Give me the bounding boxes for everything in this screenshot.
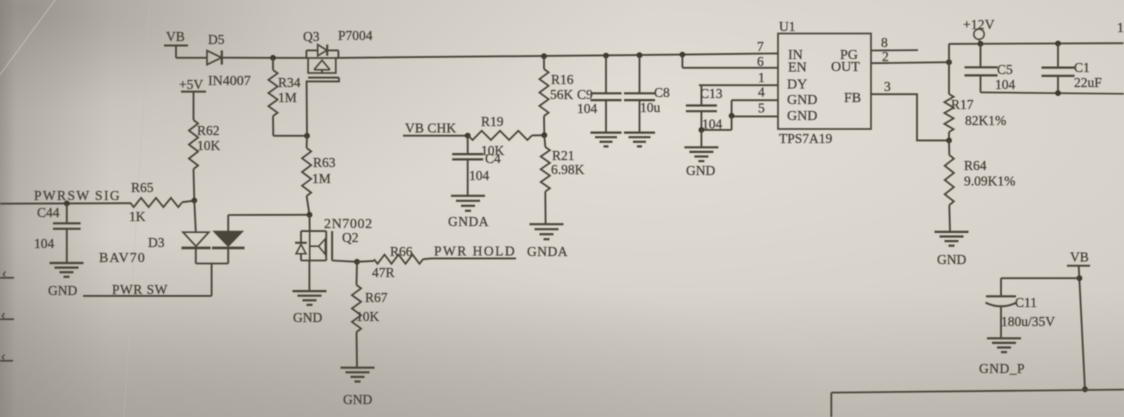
wire R34 to node E — [273, 135, 307, 137]
node OUT junction — [946, 59, 952, 65]
net label PWRSW_SIG — [0, 188, 130, 204]
svg-text:5: 5 — [758, 101, 765, 116]
svg-text:1M: 1M — [312, 171, 331, 186]
svg-text:VB CHK: VB CHK — [405, 121, 456, 136]
power +5V — [179, 77, 206, 92]
node C9 tap — [603, 53, 609, 59]
net label VB_CHK — [403, 121, 468, 136]
transistor Q2 channel box — [301, 217, 373, 261]
svg-text:BAV70: BAV70 — [99, 251, 146, 266]
svg-text:R34: R34 — [278, 75, 301, 90]
svg-text:GNDA: GNDA — [527, 244, 568, 259]
transistor Q2 gate bar — [331, 231, 333, 260]
svg-text:D5: D5 — [208, 32, 225, 47]
transistor Q3 P7004 body diode bracket — [306, 45, 338, 58]
svg-text:GND_P: GND_P — [979, 361, 1025, 376]
ground under C9 — [591, 133, 622, 147]
wire EN drop — [682, 55, 778, 68]
node C5 tap — [978, 41, 984, 47]
resistor R63 1M — [302, 136, 336, 215]
svg-text:GND: GND — [48, 283, 77, 298]
resistor R65 1K — [129, 180, 182, 224]
net label PWR_HOLD — [432, 244, 517, 259]
svg-text:C8: C8 — [654, 85, 670, 100]
svg-text:GND: GND — [686, 163, 715, 178]
svg-text:6.98K: 6.98K — [551, 162, 585, 177]
svg-text:6: 6 — [757, 54, 764, 69]
svg-text:C11: C11 — [1015, 295, 1037, 310]
wire Q2 source down — [308, 261, 310, 291]
node E junction — [304, 133, 310, 139]
svg-text:R16: R16 — [551, 72, 574, 87]
svg-text:R65: R65 — [131, 180, 154, 195]
svg-text:FB: FB — [844, 91, 861, 106]
pin 7 IN — [757, 39, 764, 54]
svg-text:104: 104 — [577, 101, 598, 116]
power +12V — [963, 17, 995, 44]
wire C5-C1 bottom — [981, 92, 1124, 93]
resistor R19 10K — [468, 114, 544, 158]
pin 2 OUT wire — [871, 49, 949, 64]
ground under C44 — [48, 263, 84, 298]
svg-text:10K: 10K — [356, 309, 380, 324]
wire R62 to node B — [193, 169, 196, 201]
svg-text:R67: R67 — [365, 290, 388, 305]
svg-text:GND: GND — [293, 310, 322, 325]
pin 8 PG stub — [871, 35, 918, 51]
connector stub edge 3 — [0, 355, 13, 361]
svg-text:Q3: Q3 — [303, 29, 320, 44]
svg-text:+12V: +12V — [963, 17, 995, 32]
net label PWR_SW — [83, 282, 212, 297]
node C44 tap — [64, 201, 70, 207]
capacitor C1 22uF — [1042, 44, 1103, 94]
svg-text:1M: 1M — [278, 90, 297, 105]
wire main VB bus — [336, 53, 778, 58]
node C11 bracket tap — [1077, 275, 1083, 281]
svg-text:GND: GND — [937, 252, 966, 267]
svg-text:R63: R63 — [313, 155, 336, 170]
svg-text:104: 104 — [702, 117, 723, 132]
ground GNDA under C4 — [448, 196, 489, 229]
diode D3 BAV70 right half — [99, 231, 245, 266]
svg-text:R17: R17 — [951, 97, 974, 112]
svg-text:C5: C5 — [997, 62, 1013, 77]
svg-text:Q2: Q2 — [342, 230, 359, 245]
capacitor C9 104 — [577, 56, 622, 133]
wire box left edge — [830, 393, 832, 417]
svg-text:10u: 10u — [640, 100, 661, 115]
ground under R67 — [341, 368, 375, 407]
ground under Q2 — [293, 291, 327, 325]
svg-text:C44: C44 — [37, 205, 60, 220]
transistor Q2 2N7002 drain wire — [309, 215, 311, 231]
svg-text:4: 4 — [758, 85, 765, 100]
svg-text:R19: R19 — [481, 114, 504, 129]
node VB to box junction — [1082, 386, 1088, 392]
transistor Q3 gate bar — [308, 77, 339, 79]
node C13 bottom junction — [699, 127, 705, 133]
svg-text:R66: R66 — [390, 244, 413, 259]
svg-text:C1: C1 — [1074, 60, 1090, 75]
svg-text:R62: R62 — [197, 123, 220, 138]
svg-text:VB: VB — [166, 29, 185, 44]
wire box top — [831, 390, 1124, 393]
ground GNDA under R21 — [527, 224, 568, 259]
resistor R64 9.09K1% — [945, 140, 1016, 231]
wire C11 bracket — [1001, 278, 1079, 296]
svg-text:D3: D3 — [148, 235, 165, 250]
svg-text:1K: 1K — [129, 209, 146, 224]
svg-text:DY: DY — [787, 78, 807, 93]
svg-text:47R: 47R — [372, 265, 395, 280]
svg-text:1: 1 — [1117, 20, 1124, 35]
diode D3 BAV70 left half — [182, 201, 211, 248]
node B junction — [191, 198, 197, 204]
resistor R62 10K — [189, 120, 221, 169]
svg-text:TPS7A19: TPS7A19 — [779, 131, 833, 146]
ground GND_P under C11 — [979, 338, 1025, 376]
transistor Q2 body diode — [295, 243, 307, 254]
svg-text:8: 8 — [881, 35, 888, 50]
wire +12V rail — [949, 42, 1124, 45]
node VB_CHK junction — [465, 133, 471, 139]
capacitor C11 180u/35V — [986, 295, 1056, 338]
wire D5 to node A — [222, 57, 308, 59]
node R16 tap — [541, 53, 547, 59]
svg-text:180u/35V: 180u/35V — [1001, 314, 1055, 329]
svg-text:+5V: +5V — [179, 77, 203, 92]
pin 1 DY — [699, 70, 778, 85]
node pin4-5 junction — [729, 113, 735, 119]
wire Q2 gate to node F — [332, 261, 357, 262]
svg-text:GND: GND — [343, 392, 372, 407]
svg-text:EN: EN — [788, 61, 807, 76]
node R19-R16-R21 junction — [541, 132, 547, 138]
svg-text:GND: GND — [787, 93, 817, 108]
node D junction — [307, 212, 313, 218]
svg-text:22uF: 22uF — [1074, 75, 1102, 90]
svg-text:2: 2 — [882, 49, 889, 64]
capacitor C13 104 — [686, 85, 723, 131]
resistor R16 56K — [539, 56, 573, 135]
net label VB — [164, 29, 188, 46]
svg-text:PWR SW: PWR SW — [112, 282, 168, 297]
resistor R67 10K — [352, 262, 388, 368]
svg-text:GND: GND — [787, 109, 817, 124]
capacitor C4 104 — [452, 136, 501, 196]
net label VB right — [1067, 250, 1090, 266]
svg-text:R21: R21 — [552, 148, 575, 163]
pin 4 GND — [732, 85, 778, 116]
svg-text:C9: C9 — [577, 87, 593, 102]
svg-text:82K1%: 82K1% — [965, 113, 1006, 128]
transistor Q2 arrow — [310, 231, 326, 260]
svg-text:7: 7 — [757, 39, 764, 54]
svg-text:PWRSW SIG: PWRSW SIG — [34, 188, 121, 203]
capacitor C44 104 — [34, 203, 81, 262]
svg-text:U1: U1 — [779, 19, 796, 34]
svg-text:9.09K1%: 9.09K1% — [964, 174, 1015, 189]
ground under R64 — [935, 232, 969, 267]
wire C13 to ground — [700, 130, 702, 147]
capacitor C5 104 — [965, 44, 1016, 93]
wire D3 common cathode bracket — [196, 248, 228, 296]
svg-text:OUT: OUT — [831, 60, 860, 75]
resistor R34 1M — [268, 58, 300, 136]
wire R65 to node B — [182, 201, 194, 203]
transistor Q3 channel box — [303, 28, 373, 73]
svg-text:C13: C13 — [700, 86, 723, 101]
svg-text:56K: 56K — [550, 87, 574, 102]
svg-text:VB: VB — [1070, 250, 1089, 265]
node C1 tap — [1055, 41, 1061, 47]
svg-text:C4: C4 — [485, 151, 501, 166]
svg-text:104: 104 — [995, 77, 1016, 92]
resistor R66 47R — [357, 244, 432, 280]
resistor R17 82K1% — [944, 62, 1006, 140]
ground under C8 — [624, 133, 655, 147]
wire OUT up to rail — [948, 44, 950, 62]
op-amp U1 TPS7A19 box — [778, 19, 871, 146]
svg-text:R64: R64 — [964, 158, 987, 173]
svg-text:GNDA: GNDA — [448, 214, 489, 229]
svg-text:1: 1 — [758, 70, 765, 85]
svg-text:P7004: P7004 — [338, 28, 373, 43]
ground under C13 — [684, 147, 718, 178]
node FB junction — [946, 138, 952, 144]
wire +5V to R62 — [193, 92, 195, 120]
top-right partial label — [1117, 20, 1124, 35]
svg-text:3: 3 — [884, 79, 891, 94]
svg-text:IN4007: IN4007 — [208, 74, 251, 89]
svg-text:PWR HOLD: PWR HOLD — [434, 244, 516, 259]
pin 3 FB wire — [871, 79, 949, 140]
resistor R21 6.98K — [541, 135, 585, 224]
capacitor C8 10u — [624, 55, 670, 132]
pin 5 GND — [732, 101, 778, 117]
wire pins to C13 bottom — [701, 116, 731, 130]
wire D3 right anode to node D — [228, 215, 309, 232]
connector stub edge 1 — [0, 272, 14, 278]
wire Q3 gate to node E — [307, 78, 339, 136]
pin 6 EN — [757, 54, 764, 69]
node A junction — [270, 55, 276, 61]
diode D5 IN4007 — [207, 32, 251, 89]
node EN tap — [680, 52, 686, 58]
svg-text:104: 104 — [34, 236, 55, 251]
node F junction — [354, 259, 360, 265]
wire VB to D5 — [176, 46, 207, 58]
node C1 bottom junction — [1055, 90, 1061, 96]
wire VB down — [1079, 266, 1085, 390]
svg-text:10K: 10K — [197, 138, 221, 153]
connector stub edge 2 — [0, 313, 14, 319]
svg-text:104: 104 — [469, 168, 490, 183]
node C8 tap — [637, 52, 643, 58]
U1 pin names — [787, 48, 861, 124]
